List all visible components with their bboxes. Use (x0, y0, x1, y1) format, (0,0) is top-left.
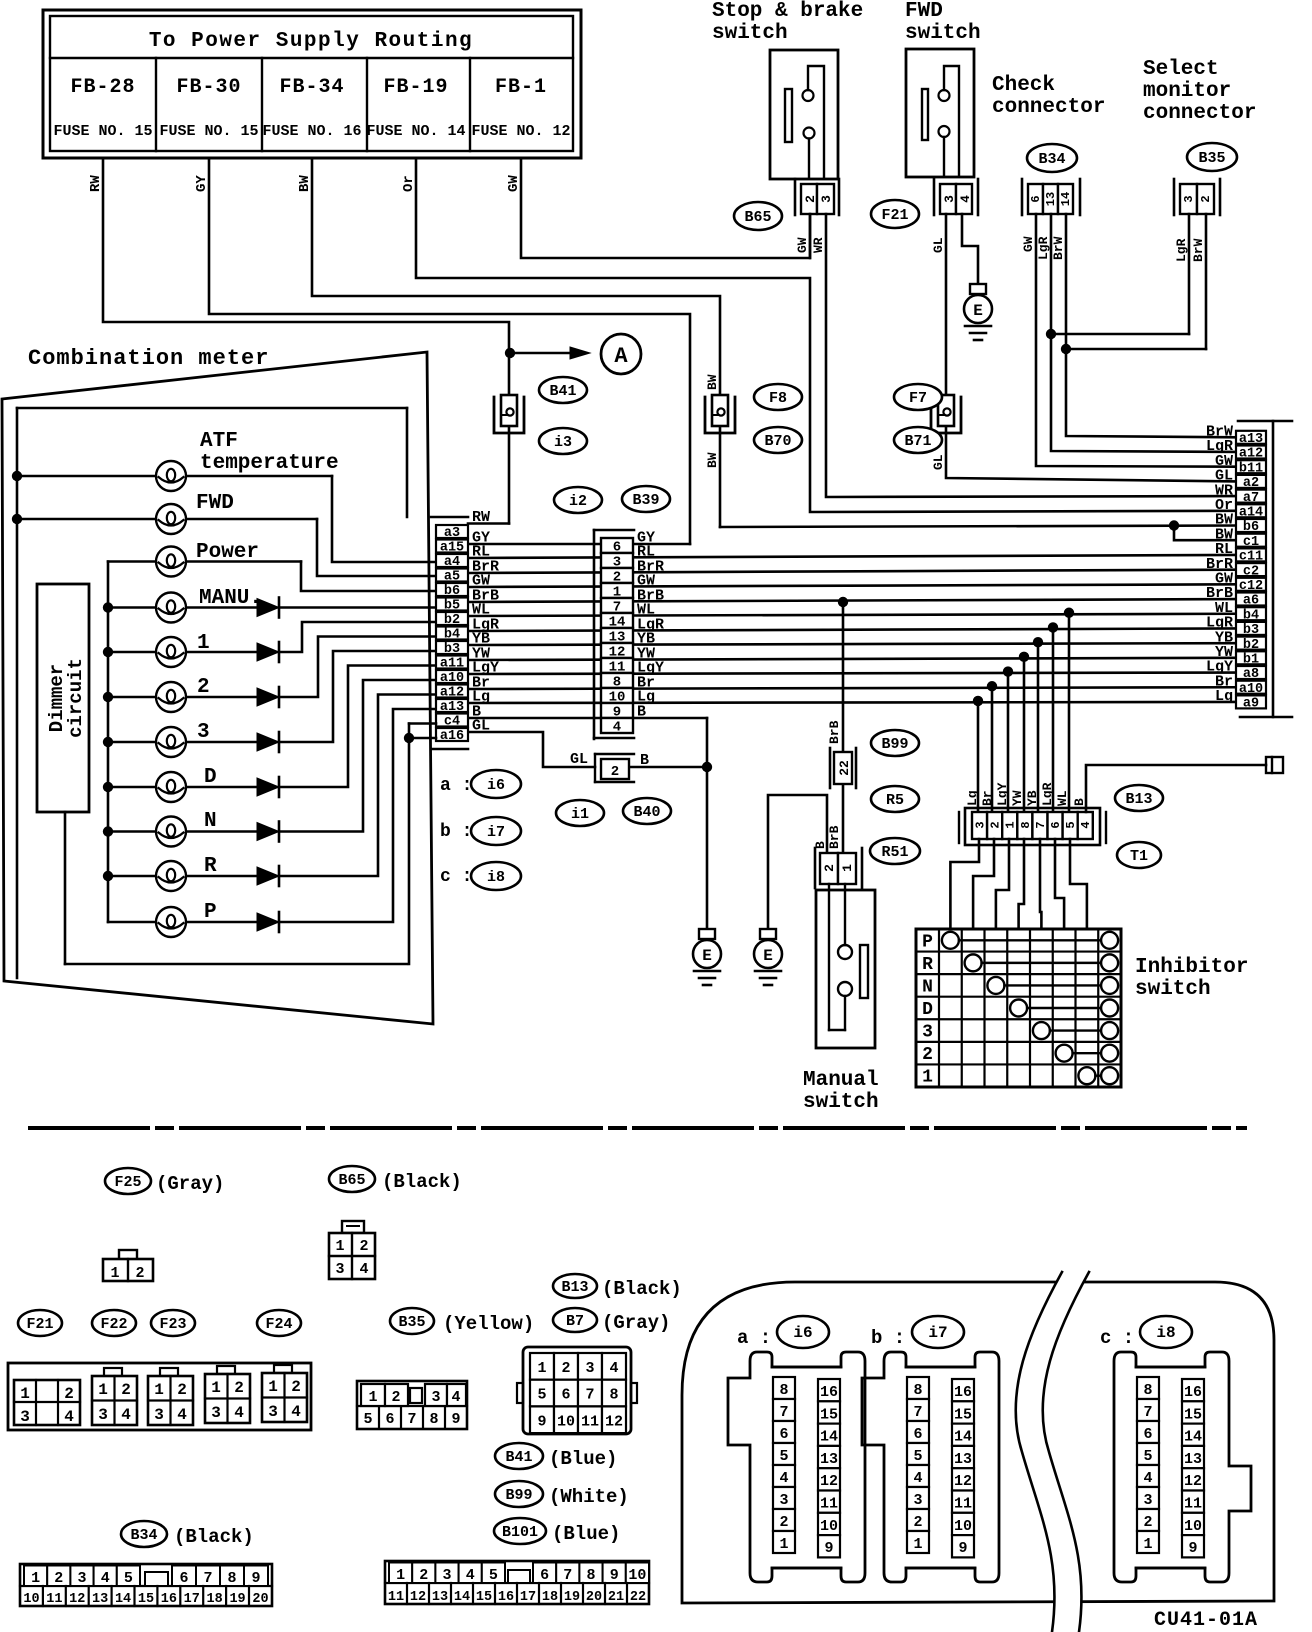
svg-text:(Black): (Black) (382, 1171, 462, 1193)
svg-text:Lg: Lg (1215, 688, 1233, 705)
svg-text:17: 17 (184, 1592, 200, 1607)
svg-text:ATF: ATF (200, 430, 238, 453)
svg-text:9: 9 (451, 1411, 460, 1428)
svg-text:a9: a9 (1243, 697, 1259, 712)
svg-text:1: 1 (110, 1265, 119, 1282)
svg-text:4: 4 (1079, 821, 1093, 828)
svg-text:11: 11 (820, 1496, 838, 1513)
svg-text:14: 14 (454, 1590, 470, 1605)
svg-text:T1: T1 (1130, 848, 1148, 865)
svg-text:1: 1 (98, 1381, 108, 1399)
svg-text:11: 11 (46, 1592, 62, 1607)
svg-text:(White): (White) (549, 1486, 629, 1508)
svg-text:1: 1 (840, 864, 855, 872)
svg-text:Manual: Manual (803, 1069, 879, 1092)
svg-text:2: 2 (197, 676, 210, 699)
svg-text:2: 2 (391, 1389, 400, 1406)
svg-text:15: 15 (476, 1590, 492, 1605)
svg-text:P: P (204, 901, 217, 924)
svg-text:15: 15 (954, 1406, 972, 1423)
svg-text:13: 13 (954, 1451, 972, 1468)
svg-text:4: 4 (913, 1470, 922, 1487)
svg-text:3: 3 (431, 1389, 440, 1406)
svg-text:13: 13 (820, 1451, 838, 1468)
svg-text:6: 6 (1143, 1426, 1152, 1443)
svg-text:3: 3 (442, 1567, 451, 1584)
svg-text:B13: B13 (1125, 791, 1152, 808)
svg-text:F21: F21 (26, 1316, 53, 1333)
svg-text:6: 6 (540, 1567, 549, 1584)
svg-text:P: P (922, 932, 933, 952)
svg-text:F23: F23 (159, 1316, 186, 1333)
svg-text:B13: B13 (561, 1279, 588, 1296)
svg-text:connector: connector (1143, 102, 1256, 125)
svg-text:R5: R5 (886, 792, 904, 809)
svg-text:B71: B71 (904, 433, 931, 450)
svg-text:switch: switch (1135, 978, 1211, 1001)
svg-text:3: 3 (1182, 195, 1196, 202)
svg-text:13: 13 (1184, 1451, 1202, 1468)
svg-text:BrW: BrW (1051, 236, 1066, 260)
svg-text:GL: GL (472, 718, 490, 735)
svg-text:FUSE NO. 14: FUSE NO. 14 (366, 123, 465, 140)
svg-text:GL: GL (931, 237, 946, 253)
svg-text:i8: i8 (1156, 1324, 1175, 1342)
svg-text:N: N (922, 977, 933, 997)
svg-text:YW: YW (1010, 790, 1025, 806)
svg-text:11: 11 (388, 1590, 404, 1605)
svg-text:1: 1 (335, 1238, 344, 1255)
svg-text:3: 3 (819, 195, 834, 203)
svg-text:i6: i6 (487, 777, 505, 794)
svg-text:16: 16 (820, 1384, 838, 1401)
svg-text:Lg: Lg (965, 790, 980, 806)
svg-text:E: E (973, 302, 983, 320)
svg-text:12: 12 (820, 1473, 838, 1490)
svg-text:YB: YB (1025, 790, 1040, 806)
svg-text:(Blue): (Blue) (549, 1448, 617, 1470)
svg-text:14: 14 (820, 1429, 838, 1446)
svg-text:2: 2 (989, 821, 1003, 828)
svg-text:20: 20 (252, 1592, 268, 1607)
svg-text:3: 3 (335, 1261, 344, 1278)
svg-text:3: 3 (268, 1403, 278, 1421)
svg-text:2: 2 (419, 1567, 428, 1584)
svg-text:5: 5 (537, 1387, 546, 1404)
svg-text:FUSE NO. 15: FUSE NO. 15 (53, 123, 152, 140)
svg-text:10: 10 (820, 1518, 838, 1535)
svg-text:18: 18 (542, 1590, 558, 1605)
svg-text:8: 8 (227, 1570, 236, 1587)
svg-text:9: 9 (251, 1570, 260, 1587)
svg-text:3: 3 (942, 195, 957, 203)
svg-text:10: 10 (557, 1413, 575, 1430)
svg-text:B35: B35 (1198, 150, 1225, 167)
svg-text:11: 11 (581, 1413, 599, 1430)
svg-text:3: 3 (913, 1492, 922, 1509)
svg-text:12: 12 (69, 1592, 85, 1607)
svg-text:B41: B41 (549, 383, 576, 400)
svg-text:2: 2 (291, 1378, 301, 1396)
svg-text:(Gray): (Gray) (156, 1173, 224, 1195)
svg-text:i7: i7 (928, 1324, 947, 1342)
svg-text:B34: B34 (130, 1527, 157, 1544)
svg-text:20: 20 (586, 1590, 602, 1605)
svg-text:11: 11 (954, 1496, 972, 1513)
svg-text:(Black): (Black) (602, 1278, 682, 1300)
svg-text:BrB: BrB (827, 825, 842, 849)
svg-text:F21: F21 (881, 207, 908, 224)
svg-text:5: 5 (1143, 1448, 1152, 1465)
svg-text:i1: i1 (571, 806, 589, 823)
svg-text:F24: F24 (265, 1316, 292, 1333)
svg-text:monitor: monitor (1143, 80, 1231, 103)
svg-text:BW: BW (705, 374, 720, 390)
svg-text:17: 17 (520, 1590, 536, 1605)
svg-text:19: 19 (564, 1590, 580, 1605)
svg-text:12: 12 (1184, 1473, 1202, 1490)
svg-text:2: 2 (1143, 1514, 1152, 1531)
svg-text:BrW: BrW (1191, 238, 1206, 262)
svg-text:3: 3 (974, 821, 988, 828)
svg-text:14: 14 (1184, 1429, 1202, 1446)
svg-text:1: 1 (922, 1068, 933, 1088)
svg-text:13: 13 (432, 1590, 448, 1605)
svg-text:3: 3 (922, 1023, 933, 1043)
svg-text:c :: c : (1100, 1327, 1134, 1349)
svg-text:2: 2 (913, 1514, 922, 1531)
svg-text:Combination meter: Combination meter (28, 346, 269, 371)
svg-text:connector: connector (992, 96, 1105, 119)
svg-text:RW: RW (472, 509, 490, 526)
svg-text:i6: i6 (793, 1324, 812, 1342)
svg-text:switch: switch (803, 1091, 879, 1114)
svg-text:switch: switch (712, 22, 788, 45)
svg-text:E: E (763, 947, 773, 965)
svg-text:2: 2 (359, 1238, 368, 1255)
svg-text:1: 1 (20, 1385, 30, 1403)
svg-text:4: 4 (451, 1389, 460, 1406)
svg-text:b :: b : (440, 822, 472, 842)
svg-text:1: 1 (913, 1536, 922, 1553)
svg-text:14: 14 (1059, 192, 1073, 206)
svg-text:8: 8 (1143, 1382, 1152, 1399)
svg-text:1: 1 (211, 1379, 221, 1397)
svg-text:2: 2 (177, 1381, 187, 1399)
svg-text:1: 1 (31, 1570, 40, 1587)
svg-text:F25: F25 (114, 1174, 141, 1191)
svg-text:a16: a16 (440, 729, 464, 744)
svg-text:14: 14 (954, 1429, 972, 1446)
svg-text:(Yellow): (Yellow) (443, 1313, 534, 1335)
svg-text:circuit: circuit (65, 658, 87, 738)
svg-text:Br: Br (980, 790, 995, 806)
svg-text:10: 10 (1184, 1518, 1202, 1535)
svg-text:FWD: FWD (196, 492, 234, 515)
svg-text:LgR: LgR (1174, 238, 1189, 262)
svg-text:10: 10 (628, 1567, 646, 1584)
svg-text:B65: B65 (744, 209, 771, 226)
svg-text:R: R (204, 855, 217, 878)
svg-text:A: A (614, 344, 628, 369)
svg-text:4: 4 (613, 720, 621, 736)
svg-text:2: 2 (1199, 195, 1213, 202)
svg-text:2: 2 (922, 1045, 933, 1065)
svg-text:FUSE NO. 15: FUSE NO. 15 (159, 123, 258, 140)
svg-text:FB-28: FB-28 (70, 76, 135, 99)
svg-text:2: 2 (234, 1379, 244, 1397)
svg-text:LgY: LgY (995, 782, 1010, 806)
svg-text:9: 9 (610, 1567, 619, 1584)
svg-text:2: 2 (121, 1381, 131, 1399)
svg-text:2: 2 (611, 764, 619, 780)
svg-text:3: 3 (154, 1406, 164, 1424)
svg-text:FB-30: FB-30 (176, 76, 241, 99)
svg-text:7: 7 (203, 1570, 212, 1587)
svg-text:8: 8 (1019, 821, 1033, 828)
svg-text:5: 5 (363, 1411, 372, 1428)
svg-text:16: 16 (1184, 1384, 1202, 1401)
svg-text:4: 4 (291, 1403, 301, 1421)
svg-text:7: 7 (779, 1404, 788, 1421)
svg-text:16: 16 (161, 1592, 177, 1607)
svg-text:a :: a : (737, 1327, 771, 1349)
svg-text:FWD: FWD (905, 0, 943, 23)
svg-text:GL: GL (570, 751, 588, 768)
svg-text:(Blue): (Blue) (552, 1523, 620, 1545)
svg-text:3: 3 (197, 721, 210, 744)
svg-text:2: 2 (803, 195, 818, 203)
svg-text:B: B (637, 704, 646, 721)
svg-text:BW: BW (705, 452, 720, 468)
svg-text:10: 10 (23, 1592, 39, 1607)
svg-text:B: B (640, 752, 649, 769)
svg-text:3: 3 (211, 1404, 221, 1422)
svg-text:2: 2 (561, 1360, 570, 1377)
svg-text:F22: F22 (100, 1316, 127, 1333)
svg-text:c :: c : (440, 867, 472, 887)
svg-text:1: 1 (154, 1381, 164, 1399)
svg-text:5: 5 (779, 1448, 788, 1465)
svg-text:16: 16 (498, 1590, 514, 1605)
svg-text:13: 13 (1044, 192, 1058, 206)
svg-text:6: 6 (1049, 821, 1063, 828)
svg-text:FB-19: FB-19 (383, 76, 448, 99)
svg-text:4: 4 (1143, 1470, 1152, 1487)
svg-text:3: 3 (585, 1360, 594, 1377)
svg-text:1: 1 (268, 1378, 278, 1396)
svg-text:B34: B34 (1038, 151, 1065, 168)
svg-text:i3: i3 (554, 434, 572, 451)
svg-text:E: E (702, 947, 712, 965)
svg-text:1: 1 (779, 1536, 788, 1553)
svg-text:(Gray): (Gray) (602, 1312, 670, 1334)
svg-text:B41: B41 (505, 1449, 532, 1466)
svg-text:4: 4 (609, 1360, 618, 1377)
svg-text:9: 9 (958, 1540, 967, 1557)
svg-text:4: 4 (958, 195, 973, 203)
svg-text:6: 6 (179, 1570, 188, 1587)
svg-text:9: 9 (537, 1413, 546, 1430)
svg-text:4: 4 (121, 1406, 131, 1424)
svg-text:BrB: BrB (827, 720, 842, 744)
svg-text:8: 8 (586, 1567, 595, 1584)
svg-text:11: 11 (1184, 1496, 1202, 1513)
svg-text:a :: a : (440, 776, 472, 796)
svg-text:4: 4 (466, 1567, 475, 1584)
svg-text:9: 9 (824, 1540, 833, 1557)
svg-text:4: 4 (359, 1261, 368, 1278)
svg-text:(Black): (Black) (174, 1526, 254, 1548)
svg-text:FUSE NO. 12: FUSE NO. 12 (471, 123, 570, 140)
svg-text:4: 4 (234, 1404, 244, 1422)
svg-text:6: 6 (385, 1411, 394, 1428)
svg-text:7: 7 (563, 1567, 572, 1584)
svg-text:GW: GW (1021, 236, 1036, 252)
svg-text:temperature: temperature (200, 452, 339, 475)
svg-text:B99: B99 (881, 736, 908, 753)
svg-text:i7: i7 (487, 824, 505, 841)
svg-text:22: 22 (630, 1590, 646, 1605)
svg-text:5: 5 (489, 1567, 498, 1584)
svg-text:1: 1 (396, 1567, 405, 1584)
svg-text:CU41-01A: CU41-01A (1154, 1609, 1258, 1632)
svg-text:1: 1 (368, 1389, 377, 1406)
svg-text:8: 8 (609, 1387, 618, 1404)
svg-text:1: 1 (537, 1360, 546, 1377)
svg-text:Check: Check (992, 74, 1055, 97)
svg-text:6: 6 (1029, 195, 1043, 202)
svg-text:FB-1: FB-1 (495, 76, 547, 99)
svg-text:B39: B39 (632, 492, 659, 509)
svg-text:i2: i2 (569, 493, 587, 510)
svg-text:3: 3 (779, 1492, 788, 1509)
svg-text:9: 9 (1188, 1540, 1197, 1557)
svg-text:B40: B40 (633, 804, 660, 821)
svg-text:switch: switch (905, 22, 981, 45)
svg-text:8: 8 (913, 1382, 922, 1399)
svg-text:D: D (204, 766, 217, 789)
svg-text:6: 6 (779, 1426, 788, 1443)
svg-text:N: N (204, 810, 217, 833)
svg-text:4: 4 (101, 1570, 110, 1587)
svg-text:5: 5 (124, 1570, 133, 1587)
svg-text:18: 18 (207, 1592, 223, 1607)
svg-text:GL: GL (931, 454, 946, 470)
svg-text:7: 7 (407, 1411, 416, 1428)
svg-text:12: 12 (410, 1590, 426, 1605)
svg-text:4: 4 (779, 1470, 788, 1487)
svg-text:B65: B65 (338, 1172, 365, 1189)
svg-text:8: 8 (429, 1411, 438, 1428)
svg-text:15: 15 (820, 1406, 838, 1423)
svg-text:2: 2 (64, 1385, 74, 1403)
svg-text:RW: RW (88, 175, 104, 192)
svg-text:2: 2 (779, 1514, 788, 1531)
svg-text:B101: B101 (502, 1524, 538, 1541)
svg-text:i8: i8 (487, 869, 505, 886)
svg-text:19: 19 (229, 1592, 245, 1607)
svg-text:22: 22 (837, 760, 852, 776)
svg-text:GW: GW (506, 175, 522, 192)
svg-text:5: 5 (1064, 821, 1078, 828)
svg-text:Or: Or (401, 175, 417, 192)
svg-text:WL: WL (1055, 790, 1070, 806)
svg-text:To Power Supply Routing: To Power Supply Routing (149, 30, 473, 53)
svg-text:21: 21 (608, 1590, 624, 1605)
svg-text:3: 3 (77, 1570, 86, 1587)
svg-text:2: 2 (822, 864, 837, 872)
svg-text:2: 2 (54, 1570, 63, 1587)
svg-text:B35: B35 (398, 1314, 425, 1331)
svg-text:10: 10 (954, 1518, 972, 1535)
svg-text:6: 6 (561, 1387, 570, 1404)
svg-text:14: 14 (115, 1592, 131, 1607)
svg-text:B7: B7 (566, 1313, 584, 1330)
svg-text:3: 3 (20, 1408, 30, 1426)
svg-text:FUSE NO. 16: FUSE NO. 16 (262, 123, 361, 140)
svg-text:2: 2 (135, 1265, 144, 1282)
svg-text:WR: WR (811, 237, 826, 253)
svg-text:7: 7 (585, 1387, 594, 1404)
svg-text:Select: Select (1143, 58, 1219, 81)
svg-text:1: 1 (1004, 821, 1018, 828)
svg-text:FB-34: FB-34 (279, 76, 344, 99)
svg-text:13: 13 (92, 1592, 108, 1607)
svg-text:b :: b : (871, 1327, 905, 1349)
svg-text:4: 4 (64, 1408, 74, 1426)
svg-text:15: 15 (1184, 1406, 1202, 1423)
svg-text:6: 6 (913, 1426, 922, 1443)
svg-text:R51: R51 (881, 844, 908, 861)
svg-text:LgR: LgR (1036, 236, 1051, 260)
svg-text:LgR: LgR (1040, 782, 1055, 806)
svg-text:B70: B70 (764, 433, 791, 450)
svg-text:BW: BW (297, 175, 313, 192)
svg-text:7: 7 (913, 1404, 922, 1421)
svg-text:B99: B99 (505, 1487, 532, 1504)
svg-text:F8: F8 (769, 390, 787, 407)
svg-text:15: 15 (138, 1592, 154, 1607)
svg-text:R: R (922, 955, 933, 975)
svg-text:1: 1 (1143, 1536, 1152, 1553)
svg-text:F7: F7 (909, 390, 927, 407)
svg-text:7: 7 (1143, 1404, 1152, 1421)
svg-text:12: 12 (605, 1413, 623, 1430)
svg-text:3: 3 (1143, 1492, 1152, 1509)
svg-text:16: 16 (954, 1384, 972, 1401)
svg-text:GY: GY (194, 175, 210, 192)
svg-text:D: D (922, 1000, 933, 1020)
svg-text:8: 8 (779, 1382, 788, 1399)
svg-text:12: 12 (954, 1473, 972, 1490)
svg-text:GW: GW (795, 237, 810, 253)
svg-text:Inhibitor: Inhibitor (1135, 956, 1248, 979)
svg-text:3: 3 (98, 1406, 108, 1424)
svg-text:5: 5 (913, 1448, 922, 1465)
svg-text:7: 7 (1034, 821, 1048, 828)
svg-text:4: 4 (177, 1406, 187, 1424)
svg-text:Stop & brake: Stop & brake (712, 0, 863, 23)
